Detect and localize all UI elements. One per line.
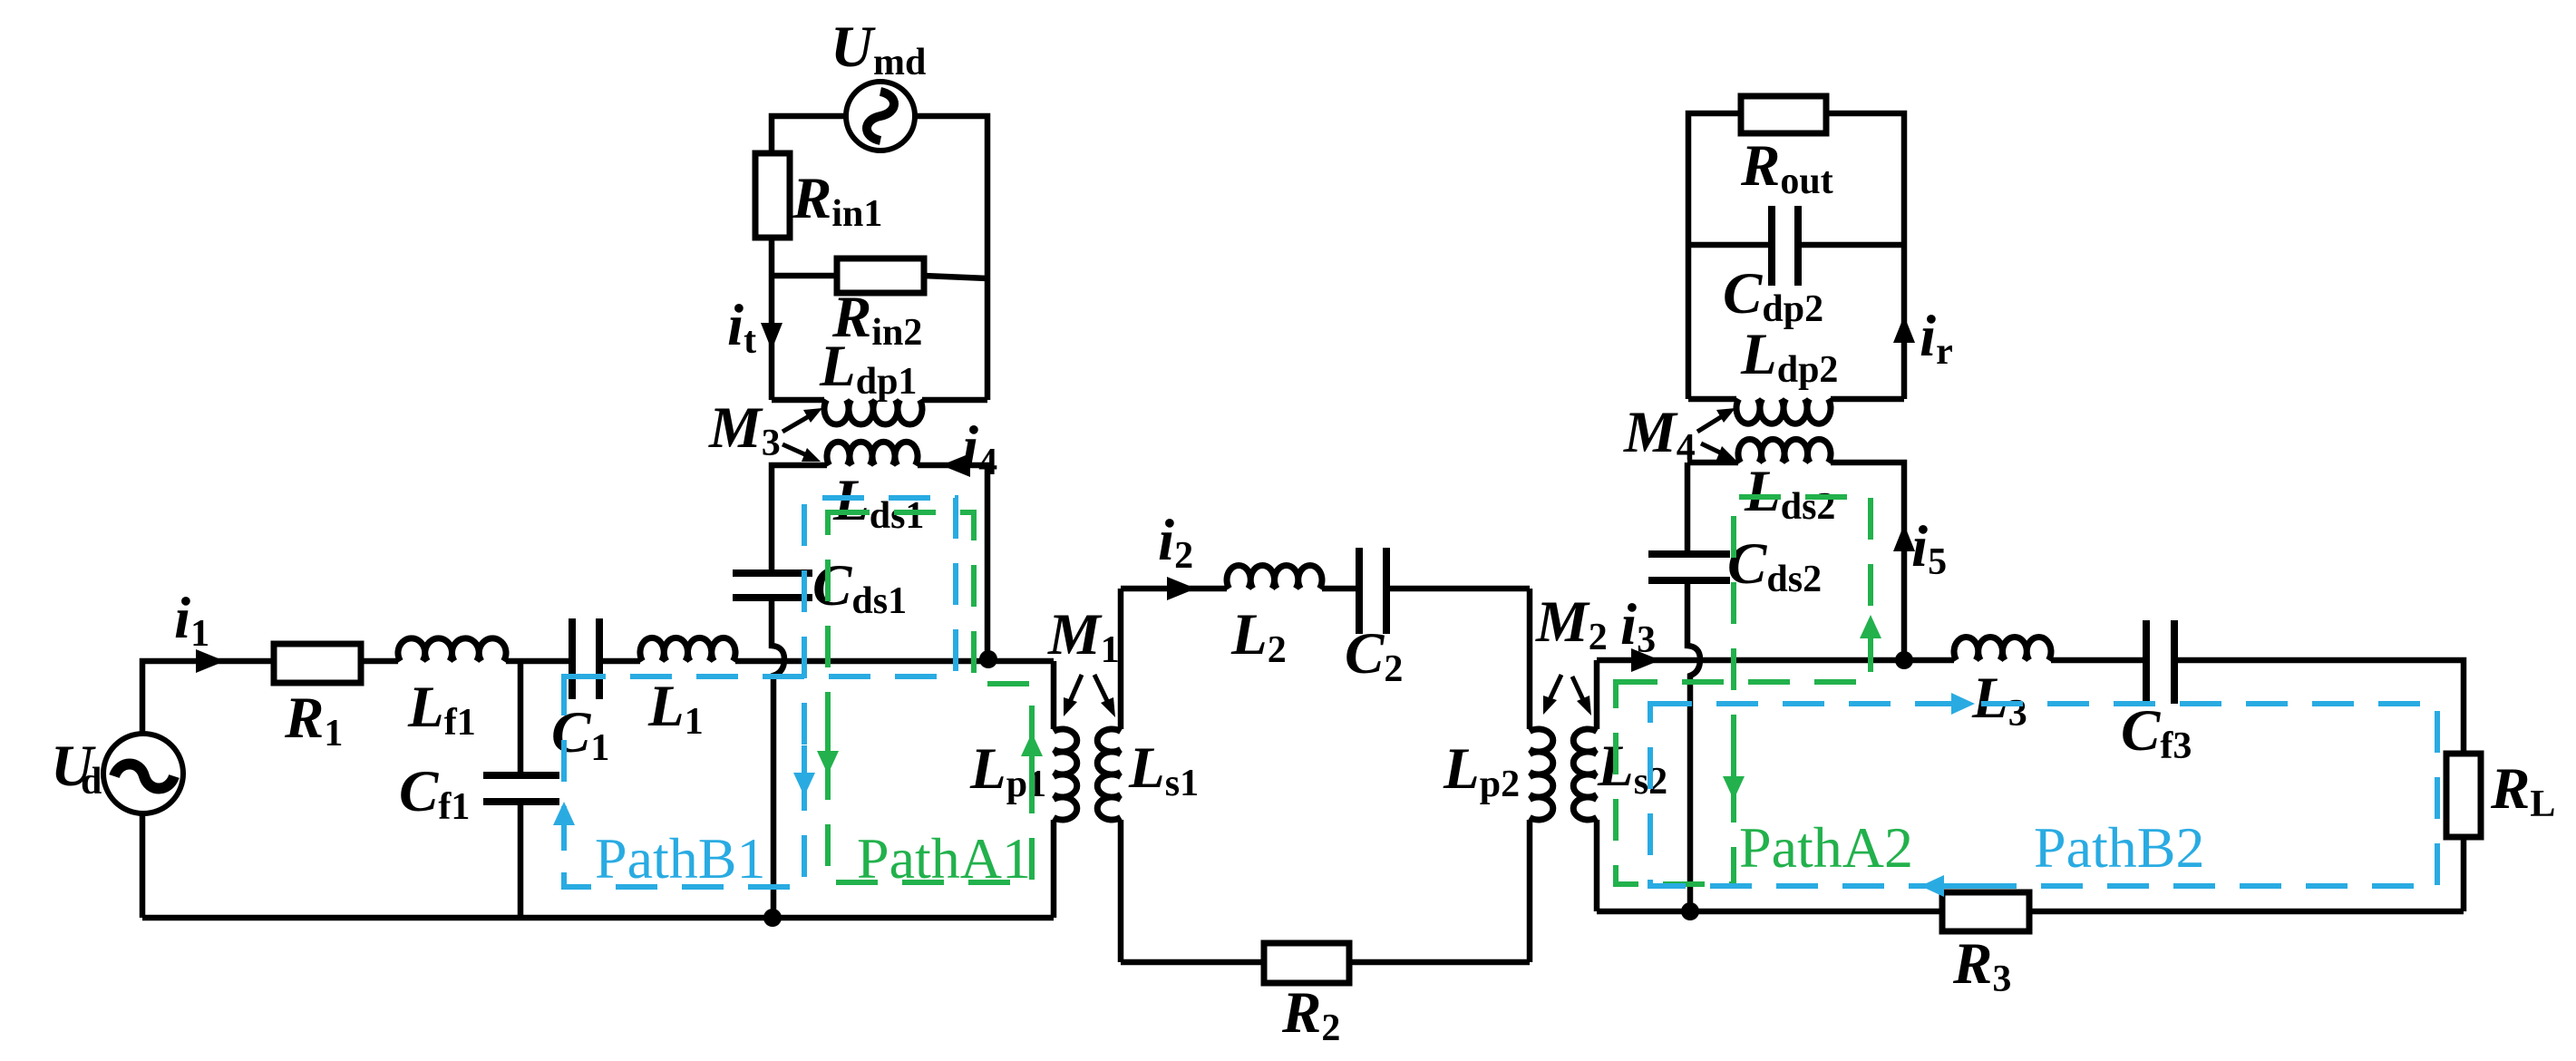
wire C2 to Lp2 xyxy=(1390,586,1530,592)
mutual arrow M1 right xyxy=(1094,675,1115,717)
junction dot node B xyxy=(763,909,782,927)
wire L1 to Lp1 corner xyxy=(735,658,1054,665)
resistor Rout xyxy=(1741,96,1826,133)
path arrow PathB1 up xyxy=(553,802,575,851)
wire L2 to C2 xyxy=(1322,586,1356,592)
capacitor C1 xyxy=(572,618,599,699)
inductor L3 xyxy=(1954,638,2051,660)
current arrow i4 xyxy=(941,453,970,477)
wire middle loop bottom xyxy=(1121,959,1530,966)
source Umd xyxy=(846,82,915,151)
wire Umd loop top xyxy=(772,116,987,400)
wire L3 to Cf3 xyxy=(2051,657,2143,664)
wire Umd loop bottom right xyxy=(922,397,987,404)
path arrow PathB2 left xyxy=(1920,875,1977,897)
current arrow i1 xyxy=(196,649,225,673)
wire Cf3 to RL xyxy=(2178,660,2464,911)
capacitor Cds2 xyxy=(1648,554,1730,580)
current arrow i2 xyxy=(1167,577,1196,600)
wire middle loop top xyxy=(1121,586,1227,592)
mutual arrow M4 upper xyxy=(1697,408,1735,432)
wire Lds1 loop top right xyxy=(918,465,987,659)
wire left loop top xyxy=(142,661,274,918)
path arrow PathA1 up xyxy=(1021,733,1043,780)
mutual arrow M2 left xyxy=(1543,675,1561,715)
inductor Lds1 xyxy=(827,442,918,465)
inductor Ls2 xyxy=(1573,729,1597,820)
wire Umd loop bottom left xyxy=(772,397,824,404)
inductor Ldp1 xyxy=(824,400,922,424)
path arrow PathB1 down xyxy=(793,745,815,796)
path PathA2 loop xyxy=(1616,497,1871,884)
mutual arrow M4 lower xyxy=(1701,443,1735,460)
wire Cds1 down with hop xyxy=(772,601,784,918)
current arrow i5 xyxy=(1893,524,1915,551)
mutual arrow M3 upper xyxy=(783,408,822,432)
wire middle loop left xyxy=(1118,589,1124,962)
inductor L1 xyxy=(640,638,735,661)
junction dot node C xyxy=(1895,651,1913,669)
junction dot node A xyxy=(979,650,997,668)
path arrow PathA2 down xyxy=(1723,742,1745,800)
wire Rin2 branch xyxy=(772,276,987,278)
resistor R3 xyxy=(1942,892,2029,931)
resistor R1 xyxy=(274,644,361,683)
wire C1 to L1 xyxy=(603,658,640,665)
resistor RL xyxy=(2446,754,2481,837)
wire Lds2 loop top xyxy=(1687,460,1738,466)
wire Ldp2 loop bottom left xyxy=(1688,396,1736,403)
wire Ldp2 loop bottom right xyxy=(1831,396,1904,403)
svg-text:PathA2: PathA2 xyxy=(1739,815,1913,880)
inductor Lp1 xyxy=(1054,729,1077,820)
capacitor C2 xyxy=(1359,548,1386,634)
capacitor Cf1 branch wire xyxy=(518,661,524,918)
mutual arrow M2 right xyxy=(1572,677,1591,715)
resistor R2 xyxy=(1264,943,1349,983)
current arrow ir xyxy=(1893,316,1915,343)
inductor Ldp2 xyxy=(1736,399,1831,423)
wire right bottom rail xyxy=(1597,909,2464,915)
capacitor Cf3 xyxy=(2146,620,2174,704)
capacitor Cdp2 xyxy=(1772,206,1798,286)
path arrow PathA2 up xyxy=(1860,615,1881,646)
wire Ls2 branch xyxy=(1594,660,1600,911)
current arrow it xyxy=(761,323,783,350)
inductor Ls1 xyxy=(1097,729,1121,820)
path arrow PathA1 down xyxy=(817,725,839,774)
path PathB2 loop xyxy=(1650,704,2437,886)
inductor Lds2 xyxy=(1738,439,1831,462)
source Ud xyxy=(103,734,183,813)
wire Cdp2 branch xyxy=(1688,242,1904,248)
inductor Lf1 xyxy=(398,638,506,661)
inductor Lp1 branch xyxy=(1051,661,1057,918)
path PathA1 loop xyxy=(828,512,1032,882)
inductor Lp2 xyxy=(1530,729,1553,820)
svg-text:PathA1: PathA1 xyxy=(857,826,1031,891)
wire Lds1 loop top left xyxy=(772,465,827,569)
mutual arrow M3 lower xyxy=(783,444,821,462)
wire Lds2 loop right xyxy=(1831,462,1904,660)
wire R1 to Lf1 xyxy=(361,658,398,665)
current arrow i3 xyxy=(1631,648,1660,672)
path PathB1 loop xyxy=(564,498,956,887)
wire Lf1 to C1 xyxy=(506,658,569,665)
wire Cds2 branch upper xyxy=(1685,462,1691,550)
wire middle loop right xyxy=(1527,589,1533,962)
wire Ldp2 loop top xyxy=(1688,113,1904,399)
mutual arrow M1 left xyxy=(1064,675,1082,716)
wire Cds2 down with hop xyxy=(1687,584,1700,911)
wire Rin1 down xyxy=(769,238,775,400)
junction dot node D xyxy=(1681,902,1699,920)
svg-text:PathB2: PathB2 xyxy=(2034,815,2204,880)
resistor Rin1 xyxy=(755,153,790,238)
svg-text:PathB1: PathB1 xyxy=(595,826,765,891)
wire right top rail xyxy=(1597,657,1954,664)
path arrow PathB2 right xyxy=(1919,693,1975,715)
resistor Rin2 xyxy=(837,258,924,293)
inductor L2 xyxy=(1227,565,1322,589)
wire left loop bottom xyxy=(142,915,1054,921)
capacitor Cf1 xyxy=(483,775,559,802)
capacitor Cds1 xyxy=(733,573,812,598)
